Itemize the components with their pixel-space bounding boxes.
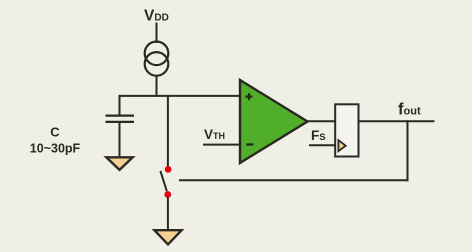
current source I1	[145, 42, 169, 76]
plus sign	[246, 93, 253, 100]
wire bus to capacitor	[119, 95, 121, 116]
wire VDD to current source	[156, 23, 158, 44]
switch SW1 contact node (bottom)	[164, 191, 171, 198]
ground (switch)	[154, 230, 181, 244]
minus sign	[246, 143, 253, 145]
wire top bus node	[119, 95, 241, 97]
clock edge marker	[338, 140, 345, 151]
wire feedback vertical	[407, 120, 409, 181]
wire Fs clock input	[309, 144, 336, 146]
wire current source to node	[156, 76, 158, 97]
svg-text:10~30pF: 10~30pF	[30, 142, 81, 156]
wire divider output fout	[359, 120, 435, 122]
capacitor C 10~30pF	[106, 116, 135, 122]
wire capacitor to ground	[119, 122, 121, 158]
wire comparator output to divider	[307, 120, 336, 122]
comparator U1	[240, 80, 308, 163]
wire feedback horizontal to switch	[179, 179, 409, 181]
svg-text:C: C	[50, 125, 60, 140]
wire switch to ground	[167, 197, 169, 231]
switch SW1 arm	[160, 171, 166, 191]
wire bus to switch	[167, 95, 169, 167]
wire VTH to comparator minus input	[203, 144, 241, 146]
switch SW1 contact node (top)	[165, 166, 172, 173]
ground (capacitor)	[106, 157, 132, 170]
divider flip-flop U2	[335, 104, 358, 156]
